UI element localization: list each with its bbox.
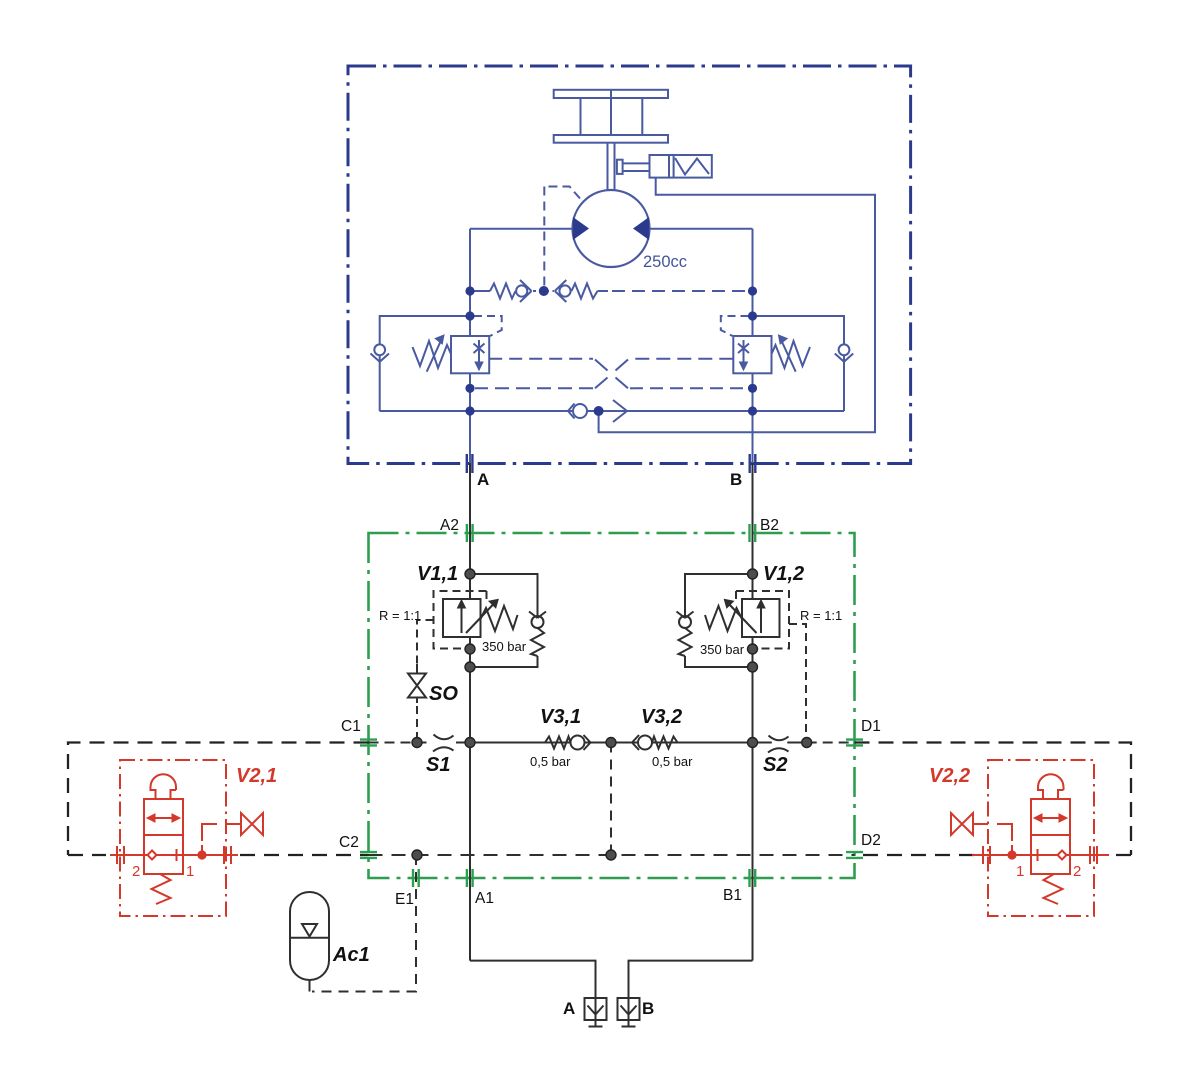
svg-text:2: 2 (1073, 863, 1081, 880)
svg-text:C1: C1 (341, 718, 361, 735)
svg-text:0,5 bar: 0,5 bar (652, 754, 693, 769)
svg-text:A2: A2 (440, 517, 459, 534)
svg-text:V3,1: V3,1 (540, 706, 581, 728)
svg-text:V2,1: V2,1 (236, 765, 277, 787)
svg-text:Ac1: Ac1 (332, 944, 370, 966)
svg-text:V2,2: V2,2 (929, 765, 970, 787)
svg-text:B: B (730, 470, 742, 489)
svg-text:1: 1 (1016, 863, 1024, 880)
svg-text:V1,1: V1,1 (417, 563, 458, 585)
svg-text:A: A (563, 999, 575, 1018)
svg-text:B: B (642, 999, 654, 1018)
svg-text:0,5 bar: 0,5 bar (530, 754, 571, 769)
svg-text:SO: SO (429, 683, 458, 705)
svg-text:D1: D1 (861, 718, 881, 735)
svg-text:2: 2 (132, 863, 140, 880)
svg-text:B1: B1 (723, 887, 742, 904)
svg-text:V1,2: V1,2 (763, 563, 804, 585)
svg-text:R = 1:1: R = 1:1 (379, 608, 421, 623)
svg-text:B2: B2 (760, 517, 779, 534)
svg-text:D2: D2 (861, 832, 881, 849)
svg-text:350 bar: 350 bar (482, 639, 527, 654)
svg-text:1: 1 (186, 863, 194, 880)
svg-text:S2: S2 (763, 754, 787, 776)
svg-text:250cc: 250cc (643, 253, 687, 271)
svg-text:R = 1:1: R = 1:1 (800, 608, 842, 623)
svg-text:A: A (477, 470, 489, 489)
svg-text:S1: S1 (426, 754, 450, 776)
svg-text:350 bar: 350 bar (700, 642, 745, 657)
svg-text:A1: A1 (475, 890, 494, 907)
svg-text:E1: E1 (395, 891, 414, 908)
svg-text:V3,2: V3,2 (641, 706, 682, 728)
svg-text:C2: C2 (339, 834, 359, 851)
